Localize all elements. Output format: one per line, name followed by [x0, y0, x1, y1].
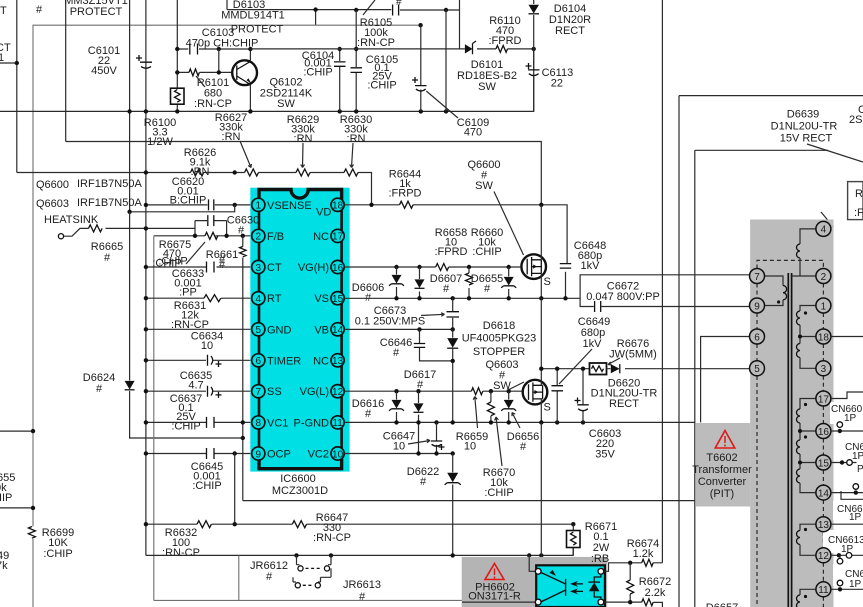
svg-text:2: 2 [256, 232, 262, 243]
label MM3Z15VT1 PROTECT [64, 0, 128, 18]
wire row y172 [17, 173, 372, 205]
node row172 x146 [144, 170, 148, 174]
svg-text:JR6613: JR6613 [343, 579, 381, 591]
label R6110 470 FPRD [489, 15, 522, 47]
wire pin1 row [146, 204, 252, 206]
svg-text:6: 6 [256, 356, 262, 367]
label R6105 100k RN-CP [357, 17, 395, 49]
wire left y508 [0, 507, 33, 509]
resistor R6665 [89, 225, 103, 232]
wire frame x679 [679, 96, 863, 607]
node p12 d6616 [394, 389, 398, 393]
node C6104 top [338, 47, 342, 51]
transformer pin 17 [816, 391, 831, 406]
svg-text:6: 6 [754, 332, 760, 343]
opto light arrows [570, 581, 583, 595]
label R6647 330 RN-CP [313, 512, 351, 544]
node VD x371 [369, 203, 373, 207]
svg-text:VS: VS [314, 293, 329, 305]
wire pin6 drop [701, 337, 750, 423]
label R6672 2.2k [639, 576, 671, 599]
gray T6602 transformer area [750, 220, 833, 607]
op-amp/IC IC6600 MCZ3001D body [250, 188, 349, 472]
transformer winding 4-2 [792, 229, 816, 276]
node VS x452 [451, 296, 455, 300]
svg-text:9: 9 [754, 301, 760, 312]
resistor R6658 [436, 264, 449, 271]
IC pin 2 [252, 229, 284, 243]
node y555 x331 [329, 553, 333, 557]
connector CN6613 pin12 [828, 535, 863, 564]
wire y500 link [243, 500, 695, 502]
resistor R6110 [496, 46, 507, 53]
resistor R6660 (vertical) [466, 267, 473, 298]
resistor R6676 (jumper box) [590, 363, 607, 375]
svg-text:OCP: OCP [267, 449, 291, 461]
svg-text:HIP: HIP [0, 492, 12, 504]
node C6103 left [175, 47, 179, 51]
warning triangle T6602 [715, 431, 735, 449]
svg-text:JW(5MM): JW(5MM) [609, 349, 657, 361]
svg-text:VD: VD [316, 207, 331, 219]
node pin2 x195 [193, 234, 197, 238]
node row524 x234 [233, 522, 237, 526]
svg-text:12: 12 [818, 551, 830, 562]
svg-text:IRF1B7N50A: IRF1B7N50A [77, 197, 142, 209]
node p11 c6603 [581, 420, 585, 424]
svg-text::FPRD: :FPRD [435, 246, 468, 258]
node x130 y211 [127, 210, 131, 214]
resistor R6699 (vertical on x33) [28, 527, 38, 540]
label C6603 220 35V [589, 428, 621, 461]
resistor bottom unnamed [642, 599, 654, 606]
wire Q6600S-Q6603D link [540, 298, 542, 368]
wire x153 gray column [153, 236, 155, 601]
label Q6600 IRF1B7N50A [36, 178, 142, 191]
node R6101 right [217, 70, 221, 74]
node p11 d6616 [394, 420, 398, 424]
wire R6632 R6647 row [146, 523, 573, 525]
resistor R6629b [296, 169, 310, 176]
node pin1 x234 [233, 203, 237, 207]
svg-text:10: 10 [332, 449, 344, 460]
svg-text::RN-CP: :RN-CP [357, 37, 395, 49]
svg-text:3: 3 [821, 364, 827, 375]
transformer pin 15 [816, 455, 831, 470]
IC pin 16 [298, 260, 344, 274]
svg-text:1P: 1P [841, 544, 854, 555]
label D6655 # [471, 273, 503, 295]
node VD x541 [539, 203, 543, 207]
svg-text:VG(H): VG(H) [298, 262, 329, 274]
IC pin 10 [308, 447, 345, 461]
node y368 c6603 [581, 367, 585, 371]
node top bus / C6105 [354, 8, 358, 12]
node pin3 x146 [144, 265, 148, 269]
svg-text:1P: 1P [844, 413, 857, 424]
node bus x356 [354, 109, 358, 113]
resistor R6647 [292, 521, 306, 528]
wire x533 top [533, 0, 535, 69]
wire opto right bottom row [604, 602, 663, 607]
IC pin 9 [252, 447, 291, 461]
node x17/y63 [15, 61, 19, 65]
opto LED D [588, 568, 603, 605]
diode D6655 (zener) [501, 267, 516, 298]
wire pin1 alt y211 [130, 205, 235, 212]
wire pin6 row [146, 359, 252, 361]
label D6656 # [507, 413, 539, 454]
IC pin 5 [252, 323, 292, 337]
svg-text:11: 11 [818, 585, 829, 596]
label C6620 0.01 B:CHIP [170, 176, 207, 207]
node VS x469 [467, 296, 471, 300]
svg-text:1.2k: 1.2k [633, 548, 654, 560]
node p11 q6603s [539, 420, 543, 424]
label R6644 1k FRPD [389, 169, 422, 200]
wire left y431 [0, 430, 33, 432]
gray T6602 label box [696, 423, 750, 507]
IC pin 1 [252, 198, 312, 212]
label C6646 # [380, 337, 412, 359]
svg-text:35V: 35V [595, 449, 615, 461]
node r6672 bottom [628, 600, 632, 604]
svg-text:0.1 250V:MPS: 0.1 250V:MPS [355, 316, 426, 328]
capacitor C6103 [190, 44, 198, 55]
svg-text:#: # [36, 4, 43, 16]
wire pin5 row [146, 328, 252, 330]
wire x234 to R6632 row [234, 454, 236, 525]
svg-text:VC1: VC1 [267, 417, 288, 429]
connector CN pin14 [831, 484, 863, 523]
resistor R6644 [400, 201, 414, 208]
svg-text:1P: 1P [852, 451, 863, 462]
node x33 y508 [31, 506, 35, 510]
svg-text::F: :F [854, 207, 863, 219]
label fragment 49 7k [0, 550, 9, 572]
IC pin 13 [313, 354, 344, 368]
svg-text:VSENSE: VSENSE [267, 200, 312, 212]
node C6105 top row [354, 47, 358, 51]
svg-text:#: # [484, 283, 491, 295]
IC pin 4 [252, 292, 282, 306]
svg-text:CT: CT [0, 5, 7, 17]
transformer dashed right column [822, 284, 824, 607]
wire x541 qsource to ground row [540, 422, 542, 555]
label D6620 D1NL20U-TR RECT [591, 378, 658, 411]
node pin4 x146 [144, 296, 148, 300]
capacitor C6637 [207, 417, 215, 428]
svg-text::RN: :RN [222, 131, 241, 143]
wire Q6600 callout [494, 192, 524, 256]
svg-text:17: 17 [332, 232, 344, 243]
label C6649 680p 1kV [559, 316, 610, 384]
label R6670 10k CHIP [483, 417, 515, 499]
wire pin2 row [154, 235, 252, 237]
label D6639 D1NL20U-TR 15V RECT [771, 109, 838, 145]
svg-text:1: 1 [0, 52, 4, 64]
gray PH6602 box [462, 557, 608, 607]
IC pin 14 [314, 323, 344, 337]
svg-text::CHIP: :CHIP [484, 487, 513, 499]
node pin9 x146 [144, 451, 148, 455]
IC pin 11 [294, 416, 345, 430]
node top bus / x446 [444, 8, 448, 12]
transformer pin 6 [750, 329, 765, 344]
svg-text:Converter: Converter [698, 476, 747, 488]
resistor R6672 (vertical) [627, 563, 634, 603]
svg-text:5: 5 [256, 325, 262, 336]
svg-text:NC: NC [313, 355, 329, 367]
diode D6624 [125, 381, 135, 390]
capacitor C6113 (polarized) [526, 63, 540, 111]
svg-text:7: 7 [754, 272, 760, 283]
svg-text:#: # [393, 347, 400, 359]
svg-text:TIMER: TIMER [267, 355, 301, 367]
wire pin8 row [146, 421, 252, 423]
label D6624 # [83, 372, 115, 395]
wire row y368 D6620 [541, 368, 749, 370]
svg-text::CHIP: :CHIP [303, 67, 332, 79]
node r6674 x630 [628, 561, 632, 565]
svg-text:#: # [266, 571, 273, 583]
node y555 x529 [527, 553, 531, 557]
svg-text:10: 10 [464, 441, 476, 453]
capacitor C6673 [447, 298, 460, 329]
svg-text:7: 7 [256, 387, 262, 398]
node R6101 left [175, 70, 179, 74]
wire top bus y10 [227, 0, 460, 10]
wire y555 ground row [146, 547, 573, 555]
svg-text::CHIP: :CHIP [192, 480, 221, 492]
node p10 x452 [451, 451, 455, 455]
node pin8 x146 [144, 420, 148, 424]
wire pin3 row [146, 266, 252, 268]
svg-text:P: P [857, 464, 863, 475]
node pin6 x146 [144, 358, 148, 362]
node p16 d6606 [394, 265, 398, 269]
transformer winding 1-18-3 [797, 306, 816, 369]
transformer pin 3 [816, 361, 831, 376]
label Q6600 # SW [467, 159, 500, 192]
resistor R6674 [642, 559, 654, 566]
wire D6101 row y49 [250, 48, 533, 50]
node p11 c6649 [555, 420, 559, 424]
svg-text:13: 13 [818, 520, 830, 531]
label C6113 22 [542, 67, 574, 89]
svg-text:15: 15 [332, 294, 344, 305]
wire x130 column [129, 0, 131, 212]
capacitor C6603 (polarized) [575, 369, 589, 423]
node p10 x418 [416, 451, 420, 455]
label D6101 RD18ES-B2 SW [457, 59, 517, 93]
capacitor C6647 (polarized) [431, 422, 445, 453]
wire bottom frame [154, 599, 536, 601]
svg-text:22: 22 [551, 77, 563, 89]
capacitor C6648 [560, 264, 571, 299]
svg-text::PP: :PP [179, 287, 197, 299]
svg-text:MMDL914T1: MMDL914T1 [221, 10, 285, 22]
label C6647 10 [383, 431, 430, 453]
svg-text:D6639: D6639 [787, 109, 819, 121]
svg-text:1: 1 [821, 301, 827, 312]
wire x129 D6624 column [130, 212, 243, 438]
svg-text:RECT: RECT [609, 398, 639, 410]
node y368 c6649 [555, 367, 559, 371]
wire x146 main column [145, 0, 147, 555]
wire x459 from top [459, 0, 461, 49]
resistor R6661 (small vertical) [240, 247, 246, 257]
capacitor C6646 [414, 329, 453, 361]
wire stub y63 [0, 62, 17, 64]
transformer pin 4 [816, 221, 831, 236]
node p12 d6656 [507, 389, 511, 393]
label C6109 470 [457, 117, 489, 139]
label C6104 0.001 CHIP [302, 50, 334, 79]
svg-text:ON3171-R: ON3171-R [468, 591, 521, 603]
wire VS row y298 [344, 297, 580, 299]
svg-text::RN-CP: :RN-CP [194, 98, 232, 110]
svg-text:16: 16 [818, 427, 830, 438]
node bus x146 [144, 109, 148, 113]
node D6618 bottom [451, 359, 455, 363]
svg-text:14: 14 [818, 488, 830, 499]
wire R6101 row y72 [177, 49, 232, 72]
node bus x420 [419, 109, 423, 113]
diode D6622 (zener) [445, 454, 461, 556]
IC pin 6 [252, 354, 302, 368]
jumper JR6612 [297, 555, 332, 571]
connector CN6609 pin16 [831, 404, 863, 433]
label R6661 # [206, 249, 238, 271]
label JR6613 # [343, 579, 381, 603]
svg-text:SS: SS [267, 386, 282, 398]
connector CN pin15 [831, 442, 863, 475]
svg-text:MCZ3001D: MCZ3001D [272, 485, 328, 497]
warning triangle PH6602 [485, 564, 504, 580]
label D6104 D1N20R RECT [549, 3, 591, 37]
svg-text:SW: SW [475, 180, 493, 192]
label Q6603 IRF1B7N50A [36, 197, 142, 210]
label IC6600 MCZ3001D [272, 473, 328, 497]
diode D6606 (zener) [389, 267, 404, 298]
svg-text:#: # [238, 225, 245, 237]
label R6674 1.2k [627, 538, 659, 560]
label D6639 callout2 [821, 212, 834, 227]
svg-text:CT: CT [267, 262, 282, 274]
svg-text:PROTECT: PROTECT [70, 6, 123, 18]
node p16 d6655 [507, 265, 511, 269]
node bus x130 [127, 109, 131, 113]
svg-text:#: # [420, 476, 427, 488]
svg-text::CHIP: :CHIP [472, 246, 501, 258]
node pin1 x146 [144, 203, 148, 207]
resistor R6101 [189, 69, 199, 76]
svg-text::RN: :RN [347, 133, 366, 145]
svg-text:1P: 1P [849, 579, 862, 590]
label D6606 # [352, 282, 384, 304]
transformer pin 9 [750, 298, 765, 313]
wire x17 left rail [16, 0, 18, 173]
node y368 q6603d [539, 367, 543, 371]
capacitor C6104 [334, 49, 346, 111]
wire pin4 row [146, 297, 252, 299]
wire pin16 row [344, 266, 521, 268]
svg-text:#: # [520, 441, 527, 453]
node pin9 x234 [233, 451, 237, 455]
svg-text:2S: 2S [849, 114, 862, 126]
svg-text:10: 10 [393, 441, 405, 453]
svg-text:HEATSINK: HEATSINK [44, 214, 99, 226]
svg-text:#: # [104, 252, 111, 264]
label C6103 470p CH:CHIP [186, 27, 259, 50]
label D6617 # [404, 369, 436, 391]
svg-text:18: 18 [818, 332, 830, 343]
node VS x565 [563, 296, 567, 300]
capacitor C6633 [207, 262, 215, 273]
node x315 top [313, 7, 317, 11]
node VS x541 [539, 296, 543, 300]
label R6676 JW(5MM) [608, 338, 657, 365]
node p11 d6617 [416, 420, 420, 424]
wire x238 drop [238, 555, 240, 600]
transformer pin 2 [816, 269, 831, 284]
wire VD row y204 [344, 205, 567, 263]
IC pin 15 [314, 292, 344, 306]
svg-text:RECT: RECT [555, 25, 585, 37]
svg-text:16: 16 [332, 263, 344, 274]
svg-text:2: 2 [821, 272, 827, 283]
label C6635 4.7 [180, 370, 212, 392]
label C6637 0.1 25V CHIP [170, 393, 202, 433]
terminal R6665 [58, 234, 63, 239]
node R6665 x146 [144, 226, 148, 230]
svg-text:14: 14 [332, 325, 344, 336]
wire VB row y329 [344, 328, 453, 330]
label C6673 0.1 250V:MPS [355, 305, 445, 328]
transformer pin 1 [816, 298, 831, 313]
node p12 d6617 [416, 389, 420, 393]
node pin5 x146 [144, 327, 148, 331]
node pin7 x146 [144, 389, 148, 393]
node pin8 x242 [241, 420, 245, 424]
svg-text:15V RECT: 15V RECT [780, 133, 833, 145]
svg-text:#: # [359, 591, 366, 603]
svg-text:1: 1 [256, 201, 262, 212]
wire pin10 row [344, 453, 453, 455]
label C6101 22 450V [88, 45, 120, 77]
transformer pin 7 [750, 269, 765, 284]
label C6105 0.1 25V CHIP [366, 54, 398, 92]
label R6632 100 RN-CP [162, 527, 200, 559]
resistor R6659 [471, 388, 482, 395]
svg-text:S: S [544, 402, 551, 414]
white pockets for CN labels [823, 402, 863, 586]
capacitor C6635 (polarized horiz) [208, 386, 222, 398]
wire pin12 row [344, 390, 523, 392]
node pin2 x226 [224, 234, 228, 238]
node VS x397 [394, 296, 398, 300]
label C6630 # (over IC) [227, 215, 259, 237]
capacitor C6672 [595, 301, 601, 312]
node x33 y431 [31, 429, 35, 433]
svg-text:D1NL20U-TR: D1NL20U-TR [771, 121, 838, 133]
label R6699 10K CHIP [42, 527, 74, 560]
transformer pin 14 [816, 485, 831, 500]
node row524 x573 [571, 522, 575, 526]
label 2SC fragment top right [849, 104, 863, 126]
svg-text:1/2W: 1/2W [147, 136, 173, 148]
